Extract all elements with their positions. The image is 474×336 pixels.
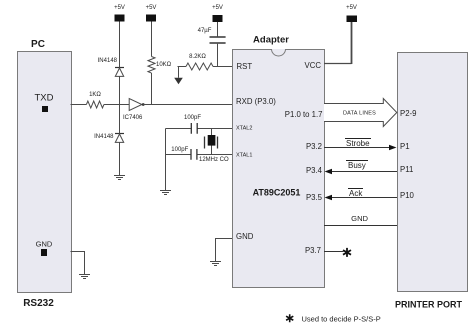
pin P3.4 label [306,167,322,175]
pin P1.0 to 1.7 label [285,111,323,119]
value label 100pF (top) [184,115,201,121]
ground (crystal caps) [160,191,171,195]
wire GND adapter to printer [324,225,397,227]
value label IN4148 (bottom diode) [94,134,113,140]
net label Busy (overlined) [346,160,368,170]
diode D1 IN4148 [115,68,124,77]
ground (below D2) [114,176,125,180]
wire 10K to RXD net [151,73,153,105]
+5V square 3 [213,15,223,22]
resistor R2 10KΩ [148,57,155,74]
wire 1K to inverter input [104,104,129,106]
pin RST label [237,63,253,71]
PC label [31,40,45,50]
+5V square 1 [115,15,125,22]
wire 8.2K to RST pin [213,66,232,68]
wire +5V2 down to 10K [151,22,153,57]
wire ground stub to 8.2K [178,67,187,78]
resistor R1 1KΩ [86,101,104,108]
wire XTAL2 net [166,128,233,130]
pin P2-9 label [400,110,416,118]
printer port box [397,52,468,292]
wire Busy P11 to P3.4 [325,169,398,175]
pin RXD (P3.0) label [236,98,276,106]
IC name AT89C2051 [253,188,301,197]
value label IN4148 (top diode) [98,58,117,64]
Adapter label [253,35,289,45]
resistor R3 8.2KΩ [186,63,213,70]
net label GND (parallel cable) [351,215,368,223]
wire adapter GND pin [216,239,233,262]
+5V label 1 [114,5,125,11]
+5V square 2 [146,15,156,22]
wire +5V1 down to diode D1 [119,22,121,68]
wire XTAL1 net [166,154,233,156]
pin XTAL1 label [236,154,252,160]
+5V label 4 [346,5,357,11]
TXD pad [42,106,48,113]
wire Strobe P3.2 to P1 [324,145,397,151]
wire D1 anode through TXD node to D2 cathode [119,76,121,133]
TXD pin label [35,93,54,103]
bus arrow DATA LINES P1.0-1.7 to P2-9 [324,99,397,127]
capacitor C3 47uF [210,37,226,43]
+5V label 2 [146,5,157,11]
wire TXD to 1K resistor [71,104,87,106]
value label 10KΩ [156,62,171,68]
pin GND label (adapter) [236,233,253,241]
net label Strobe (overlined) [345,138,371,148]
wire Ack P10 to P3.5 [325,195,398,201]
ground (arrow style, RST divider) [174,78,183,84]
wire P3.7 stub [324,251,344,253]
PC box [17,51,72,293]
pin VCC label [305,62,321,70]
pin P3.5 label [306,194,322,202]
wire 47uF to RST net [217,44,219,67]
crystal Y1 12MHz [205,129,218,155]
pin P3.2 label [306,143,322,151]
pin XTAL2 label [236,126,252,132]
value label 1KΩ [89,92,101,98]
pin P3.7 label [305,247,321,255]
value label 100pF (bottom) [171,147,188,153]
value label 8.2KΩ [189,54,206,60]
wire VCC to +5V4 [324,63,352,65]
ground (adapter) [210,262,221,266]
GND pad (PC) [41,249,47,256]
adapter notch [272,49,286,56]
wire D2 anode to ground [119,142,121,175]
GND pin label (PC) [36,240,53,248]
net label Ack (overlined) [348,188,363,198]
Adapter box [232,49,325,288]
inverter U1 IC7406 [129,99,144,111]
+5V label 3 [212,5,223,11]
note asterisk [286,314,293,322]
ground (PC) [79,275,90,279]
value label 47uF [198,28,212,34]
asterisk marker at P3.7 [343,248,351,257]
value label IC7406 [123,115,142,121]
wire +5V3 down to 47uF [217,22,219,36]
pin P11 label [400,166,413,174]
net label DATA LINES [343,111,376,117]
wire inverter output to RXD pin [143,104,232,106]
PRINTER PORT label [395,300,462,309]
value label 12MHz CO [199,157,229,163]
diode D2 IN4148 [115,134,124,143]
pin P1 label [400,143,410,151]
capacitor C1 100pF (top) [191,123,197,134]
note text [302,315,381,323]
wire caps to ground [165,129,167,191]
pin P10 label [400,192,414,200]
+5V square 4 [347,16,358,23]
RS232 label [23,299,54,309]
capacitor C2 100pF (bottom) [191,149,197,160]
wire PC GND pin [71,252,85,275]
